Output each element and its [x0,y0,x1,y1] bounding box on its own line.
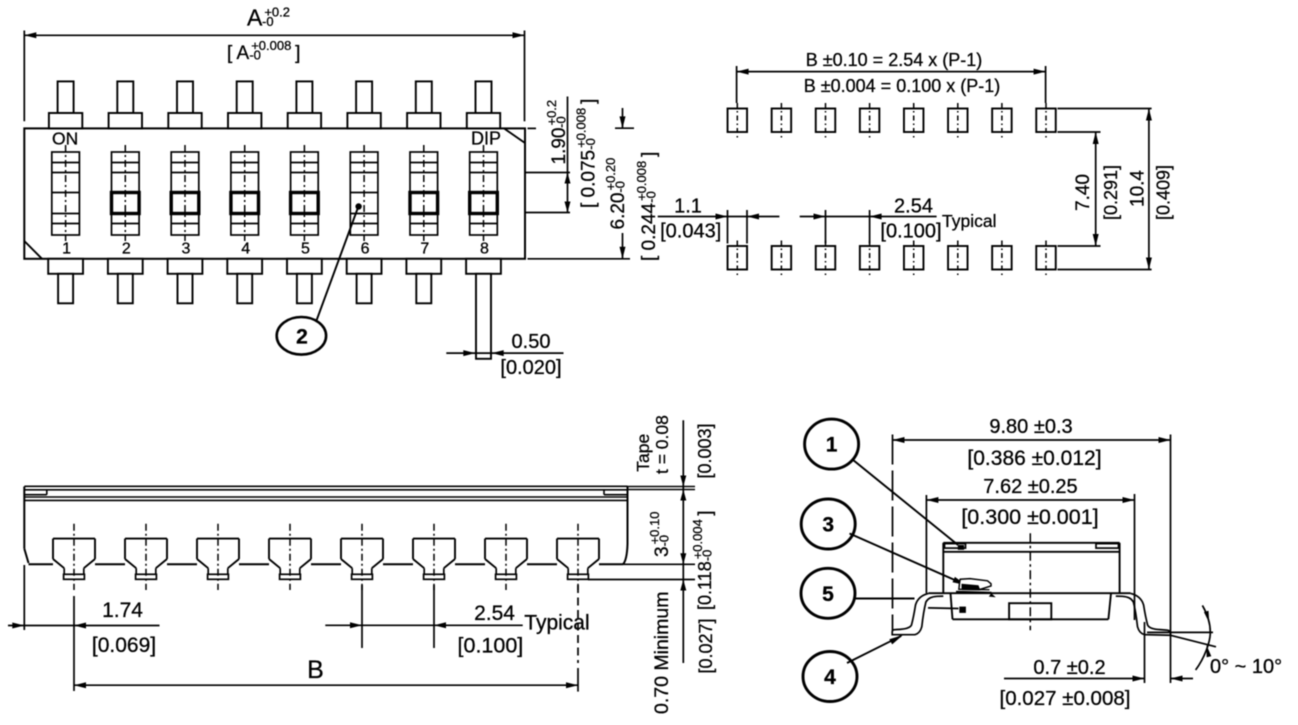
svg-text:[0.020]: [0.020] [500,357,561,379]
svg-text:[0.069]: [0.069] [92,634,156,657]
svg-text:6: 6 [361,241,370,258]
svg-text:4: 4 [824,666,836,689]
svg-text:7.62 ±0.25: 7.62 ±0.25 [983,476,1077,498]
svg-text:0.7 ±0.2: 0.7 ±0.2 [1033,657,1105,679]
svg-text:7.40: 7.40 [1073,174,1094,211]
svg-text:Typical: Typical [524,612,589,635]
svg-text:Typical: Typical [942,211,996,231]
svg-text:5: 5 [301,241,310,258]
svg-text:[0.100]: [0.100] [880,221,941,243]
svg-text:5: 5 [822,583,834,606]
svg-text:2.54: 2.54 [894,196,933,218]
svg-text:[0.291]: [0.291] [1101,165,1121,220]
svg-text:B ±0.004 = 0.100 x (P-1): B ±0.004 = 0.100 x (P-1) [804,76,1001,96]
svg-text:[0.409]: [0.409] [1154,165,1174,220]
svg-text:[0.027 ±0.008]: [0.027 ±0.008] [1000,687,1131,710]
svg-text:2.54: 2.54 [474,602,515,625]
svg-text:1.1: 1.1 [674,196,702,218]
svg-text:B: B [307,656,324,684]
svg-text:[0.027]: [0.027] [696,618,716,673]
svg-text:7: 7 [420,241,429,258]
svg-text:0.70 Minimum: 0.70 Minimum [651,592,673,714]
svg-text:3: 3 [182,241,191,258]
svg-text:4: 4 [241,241,250,258]
svg-text:t = 0.08: t = 0.08 [652,415,672,474]
svg-text:2: 2 [122,241,131,258]
svg-text:0° ~ 10°: 0° ~ 10° [1210,656,1282,678]
svg-text:2: 2 [296,326,308,349]
svg-text:0.50: 0.50 [512,331,551,353]
svg-text:[0.300 ±0.001]: [0.300 ±0.001] [961,505,1098,529]
svg-text:DIP: DIP [471,129,501,149]
svg-text:[0.100]: [0.100] [458,634,524,658]
svg-text:1: 1 [826,434,838,457]
svg-text:[0.043]: [0.043] [660,221,721,243]
svg-text:[0.003]: [0.003] [695,423,715,478]
svg-text:8: 8 [480,241,489,258]
svg-text:Tape: Tape [633,434,653,472]
svg-text:10.4: 10.4 [1128,170,1149,207]
svg-text:3: 3 [822,514,834,537]
svg-text:1: 1 [62,241,71,258]
svg-text:B ±0.10 = 2.54 x (P-1): B ±0.10 = 2.54 x (P-1) [806,50,982,70]
svg-text:9.80 ±0.3: 9.80 ±0.3 [989,416,1072,438]
svg-text:[0.386 ±0.012]: [0.386 ±0.012] [967,447,1101,470]
svg-text:1.74: 1.74 [102,599,143,622]
